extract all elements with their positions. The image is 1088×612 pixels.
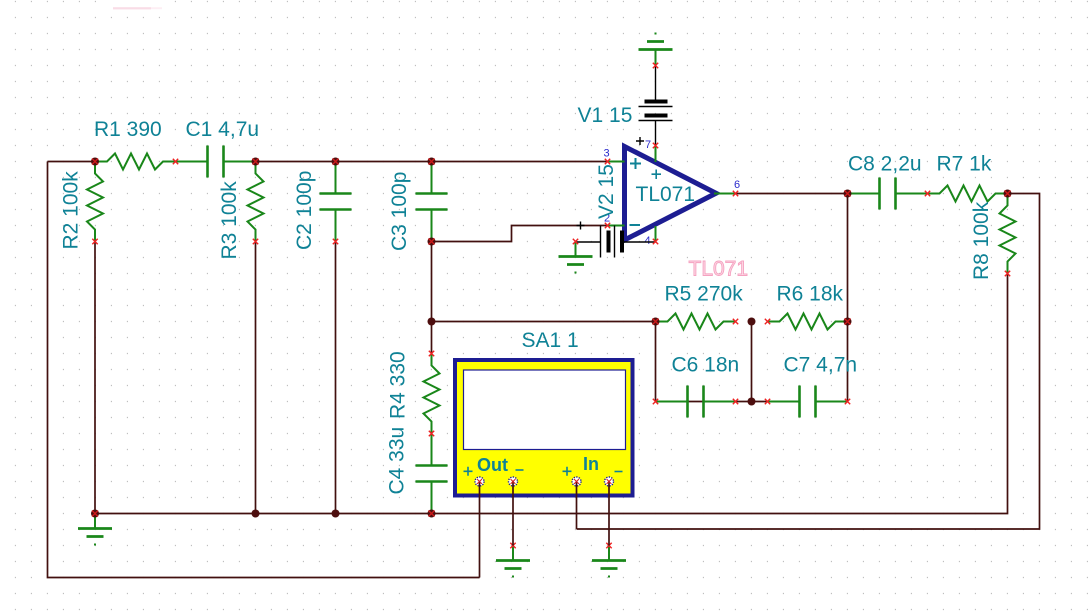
pin-end x (255.5,241.5) [253, 239, 258, 244]
wire C3-bottom down to R4 node [431, 242, 433, 322]
pin-end x (1007.5,273.5) [1005, 271, 1010, 276]
wire R3 bottom to bus [255, 242, 257, 514]
wire C3 bottom to op-amp pin2 (jog) [432, 226, 608, 242]
pin-end x (735.5,193.5) [733, 191, 738, 196]
svg-text:R7 1k: R7 1k [937, 153, 992, 176]
resistor R4 [424, 354, 440, 434]
pin-end x Out- ground [510, 543, 515, 548]
pin-end x (767.5,321.5) [765, 319, 770, 324]
ground ground at V2 [559, 242, 593, 273]
pin-end x V2 ground [573, 239, 578, 244]
wire top net C1 to op-amp pin3 [256, 161, 608, 163]
svg-text:R2 100k: R2 100k [60, 171, 83, 250]
resistor R7 [928, 186, 1008, 202]
op-amp input + marker [630, 158, 641, 169]
resistor R3 [248, 162, 264, 242]
svg-text:C4 33u: C4 33u [386, 427, 409, 495]
SA1 In - mark [615, 471, 623, 473]
ground ground Out- [496, 546, 530, 577]
pin-end x (95,241.5) [92, 239, 97, 244]
svg-text:TL071: TL071 [689, 258, 749, 281]
svg-text:Out: Out [477, 455, 508, 475]
wire R8 bottom + ground bus [95, 274, 1008, 514]
wire R5 left down to C6 left [655, 322, 657, 402]
junction (95,513.5) [91, 510, 99, 518]
resistor R5 [656, 314, 736, 330]
terminal In- and wire down [605, 477, 614, 546]
junction (1007.5,193.5) [1004, 190, 1012, 198]
junction (751.5,401.5) [748, 398, 756, 406]
svg-text:R3 100k: R3 100k [218, 181, 241, 260]
faint artifact smear top-left [103, 0, 171, 9]
svg-text:C8 2,2u: C8 2,2u [848, 153, 922, 176]
op-amp input - marker [630, 224, 641, 226]
power flag above V1 [639, 34, 673, 66]
capacitor C6 [656, 386, 736, 418]
junction (751.5,321.5) [748, 318, 756, 326]
wire stub to R4 top [431, 322, 433, 354]
junction (95,161.5) [91, 158, 99, 166]
capacitor C2 [320, 162, 352, 242]
op-amp pin3 lead [608, 161, 625, 163]
SA1 Out - mark [516, 469, 524, 471]
junction (655.5,321.5) [652, 318, 660, 326]
pin-end x (735.5,401.5) [733, 399, 738, 404]
svg-text:C3 100p: C3 100p [388, 172, 411, 251]
junction (335.5,513.5) [332, 510, 340, 518]
capacitor C1 [176, 146, 256, 178]
pin-end x (335.5,241.5) [333, 239, 338, 244]
wire R2 bottom to bus [94, 242, 96, 514]
svg-text:3: 3 [603, 148, 609, 160]
SA1 Out + mark [464, 467, 473, 476]
svg-text:R6 18k: R6 18k [777, 283, 844, 306]
wire R4 node to R5 left node [432, 321, 656, 323]
connector SA1 outer box [453, 358, 635, 498]
pin-end x (655.5,241.5) [653, 239, 658, 244]
pin-end x (607.5,161.5) [605, 159, 610, 164]
junction (431.5,241.5) [428, 238, 436, 246]
wire C2 bottom to bus [335, 242, 337, 514]
svg-text:6: 6 [734, 179, 740, 191]
resistor R8 [1000, 194, 1016, 274]
ground ground at bus left [78, 514, 112, 545]
pin-end x (175.5,161.5) [173, 159, 178, 164]
wire R5/R6 node down to C6/C7 node [751, 322, 753, 402]
pin-end x (927.5,193.5) [925, 191, 930, 196]
pin-end x (655.5,401.5) [653, 399, 658, 404]
terminal Out- and wire down [509, 477, 518, 546]
resistor R1 [95, 154, 175, 170]
wire C8 node down to R6/C7 right [847, 194, 849, 402]
op-amp U1 TL071 triangle [625, 147, 717, 241]
op-amp V+ marker [652, 170, 662, 180]
svg-text:R4 330: R4 330 [387, 351, 410, 419]
capacitor C8 [848, 178, 928, 210]
svg-text:C1 4,7u: C1 4,7u [186, 118, 260, 141]
SA1 inner white panel [464, 370, 626, 450]
svg-text:R1 390: R1 390 [94, 118, 162, 141]
junction (255.5,161.5) [252, 158, 260, 166]
svg-text:C6 18n: C6 18n [672, 354, 740, 377]
junction (847.5,321.5) [844, 318, 852, 326]
resistor R6 [768, 314, 848, 330]
wire R7 node right-down-left to In+ [577, 194, 1040, 530]
terminal In+ and wire down [572, 477, 581, 529]
wire left-top horizontal to node A [48, 161, 96, 163]
svg-text:SA1 1: SA1 1 [522, 329, 579, 352]
op-amp pin2 lead [608, 225, 625, 227]
svg-text:R8 100k: R8 100k [970, 201, 993, 280]
op-amp pin6 lead [714, 193, 736, 195]
capacitor C4 [416, 434, 448, 514]
svg-text:TL071: TL071 [636, 183, 696, 206]
op-amp pin4 lead [655, 226, 657, 242]
junction (255.5,513.5) [252, 510, 260, 518]
pin-end x (655.5,145.5) [653, 143, 658, 148]
junction (335.5,161.5) [332, 158, 340, 166]
pin-end x (431.5,353.5) [429, 351, 434, 356]
junction (431.5,161.5) [428, 158, 436, 166]
pin-end x (735.5,321.5) [733, 319, 738, 324]
pin-end x (847.5,401.5) [845, 399, 850, 404]
SA1 In + mark [563, 467, 572, 476]
svg-text:C2 100p: C2 100p [293, 171, 316, 250]
capacitor C3 [416, 162, 448, 242]
svg-text:4: 4 [644, 235, 650, 247]
ground ground In- [592, 546, 626, 577]
svg-text:V1 15: V1 15 [578, 104, 633, 127]
battery V2 [576, 222, 656, 258]
resistor R2 [87, 162, 103, 242]
junction (431.5,321.5) [428, 318, 436, 326]
svg-text:In: In [583, 454, 599, 474]
pin-end x In- ground [606, 543, 611, 548]
battery V1 [636, 66, 673, 146]
capacitor C7 [768, 386, 848, 418]
junction (431.5,513.5) [428, 510, 436, 518]
op-amp pin7 lead [655, 146, 657, 163]
pin-end x (607.5,225.5) [605, 223, 610, 228]
junction (847.5,193.5) [844, 190, 852, 198]
svg-text:C7 4,7n: C7 4,7n [784, 354, 858, 377]
wire left vertical + bottom to Out+ [48, 162, 480, 578]
wire op-amp output pin6 to C8 node [736, 193, 848, 195]
pin-end x (767.5,401.5) [765, 399, 770, 404]
svg-text:V2 15: V2 15 [595, 164, 618, 219]
wire C6/C7 row horizontal [656, 401, 768, 403]
pin-end x (431.5,433.5) [429, 431, 434, 436]
terminal Out+ and wire down [475, 477, 484, 578]
svg-text:7: 7 [645, 139, 651, 151]
svg-text:R5 270k: R5 270k [665, 283, 744, 306]
pin-end x (655.5,65.5) [653, 63, 658, 68]
